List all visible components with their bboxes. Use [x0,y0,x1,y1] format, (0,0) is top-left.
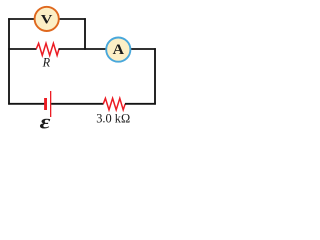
wire: middle horizontal, resistor R to ammeter to right vertical [59,48,156,50]
wire: middle horizontal, left segment to resistor R [8,48,36,50]
wire: left vertical [8,18,10,104]
voltmeter V circle [35,7,59,31]
wire: right vertical [154,48,156,104]
resistor R zigzag [36,43,59,55]
wire: bottom horizontal right of 3.0k resistor [125,103,156,105]
battery short thick plate [44,98,47,110]
svg-text:3.0 kΩ: 3.0 kΩ [96,111,130,125]
svg-text:A: A [113,42,125,58]
wire: top horizontal through voltmeter [8,18,86,20]
svg-text:R: R [42,55,51,69]
wire: bottom horizontal left of battery [8,103,44,105]
ammeter A circle [106,38,130,62]
svg-text:V: V [41,12,54,26]
wire: bottom horizontal between battery and 3.0k resistor [51,103,103,105]
svg-text:ε: ε [40,111,52,133]
battery long thin plate [50,91,51,117]
wire: mid vertical from top wire to middle wire [84,18,86,50]
resistor 3.0 kOhm zigzag [103,98,125,110]
